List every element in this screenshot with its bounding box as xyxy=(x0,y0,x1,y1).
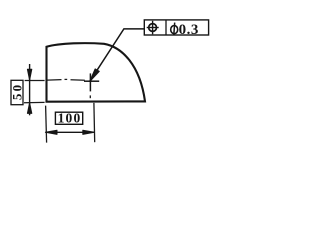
100 right arrowhead xyxy=(83,130,95,134)
50 bottom extension line xyxy=(24,101,45,103)
100 left extension line xyxy=(46,106,47,143)
leader arrowhead xyxy=(90,69,99,81)
100 dimension line xyxy=(45,131,94,133)
svg-text:0.3: 0.3 xyxy=(179,22,199,38)
hole position cross horizontal bar xyxy=(84,80,99,82)
feature control frame box xyxy=(144,20,208,35)
vertical centerline (hole axis) xyxy=(89,73,91,91)
vertical centerline dot below cross xyxy=(89,95,91,98)
feature control frame divider xyxy=(165,20,167,35)
position symbol xyxy=(147,21,159,35)
part outline xyxy=(47,43,146,102)
50 top arrowhead (points down to centerline) xyxy=(27,69,31,80)
100 left arrowhead xyxy=(45,130,57,134)
svg-text:50: 50 xyxy=(9,83,24,100)
leader line from feature control frame xyxy=(90,29,144,81)
svg-text:100: 100 xyxy=(58,111,82,126)
50 dimension line (vertical) xyxy=(29,64,31,115)
100 basic dimension box xyxy=(55,112,82,124)
50 bottom arrowhead (points up to bottom edge) xyxy=(27,103,31,114)
100 right extension line (hole axis extended) xyxy=(93,103,96,142)
50 basic dimension box xyxy=(11,80,23,104)
diameter symbol of tolerance value xyxy=(171,23,178,35)
horizontal centerline (hole axis, extended left as extension line for 50) xyxy=(25,79,85,80)
